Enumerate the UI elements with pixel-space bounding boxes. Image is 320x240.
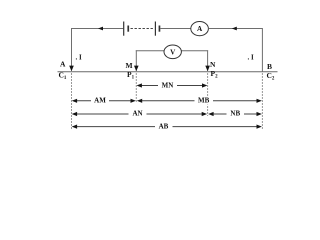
- battery B1: [124, 22, 161, 36]
- svg-text:N: N: [210, 60, 216, 69]
- svg-text:V: V: [170, 48, 176, 56]
- dotted extension at N: [207, 74, 209, 117]
- svg-text:AM: AM: [94, 97, 106, 105]
- dimension NB: [208, 110, 262, 118]
- dimension AN: [72, 110, 207, 118]
- dimension AB: [72, 122, 262, 130]
- current arrow on top-right wire: [232, 27, 237, 31]
- wire right vertical: [261, 28, 263, 72]
- current arrow on top-left wire: [98, 27, 103, 31]
- svg-text:P2: P2: [211, 69, 219, 80]
- node C1 label: [59, 71, 67, 82]
- dimension MN: [137, 81, 208, 89]
- svg-text:AN: AN: [132, 110, 142, 118]
- svg-text:M: M: [126, 61, 133, 70]
- dimension AM: [72, 96, 136, 104]
- ammeter A: [191, 22, 209, 36]
- dimension MB: [137, 96, 262, 104]
- node B label: [267, 62, 272, 71]
- wire voltmeter branch N vertical: [207, 50, 209, 71]
- svg-text:C2: C2: [267, 71, 275, 82]
- wire ammeter to top-right corner: [208, 28, 262, 30]
- svg-text:B: B: [267, 62, 272, 71]
- wire AB main horizontal: [58, 71, 278, 73]
- wire left vertical: [71, 28, 73, 71]
- svg-text:. I: . I: [248, 54, 255, 62]
- dotted extension at A: [71, 74, 73, 129]
- wire voltmeter branch horizontal: [136, 50, 208, 52]
- dotted extension at B: [261, 74, 263, 129]
- svg-text:A: A: [197, 25, 203, 33]
- svg-text:MN: MN: [162, 81, 174, 89]
- current arrow into node M: [134, 66, 139, 72]
- node M label: [126, 61, 133, 70]
- node A label: [60, 60, 66, 69]
- svg-text:. I: . I: [76, 54, 83, 62]
- node P1 label: [127, 70, 135, 81]
- current arrow into node N: [205, 66, 210, 72]
- wire battery to ammeter: [160, 28, 191, 30]
- current label I right: [248, 54, 255, 62]
- svg-text:MB: MB: [198, 97, 210, 105]
- dotted extension at M: [135, 74, 137, 104]
- node C2 label: [267, 71, 275, 82]
- current label I left: [76, 54, 83, 62]
- wire top-left horizontal: [71, 28, 123, 30]
- wire voltmeter branch M vertical: [135, 50, 137, 71]
- svg-text:AB: AB: [159, 122, 169, 130]
- node N label: [210, 60, 216, 69]
- current arrow into node A: [69, 66, 74, 72]
- node P2 label: [211, 69, 219, 80]
- voltmeter V: [164, 45, 181, 59]
- svg-text:NB: NB: [230, 110, 240, 118]
- svg-text:A: A: [60, 60, 66, 69]
